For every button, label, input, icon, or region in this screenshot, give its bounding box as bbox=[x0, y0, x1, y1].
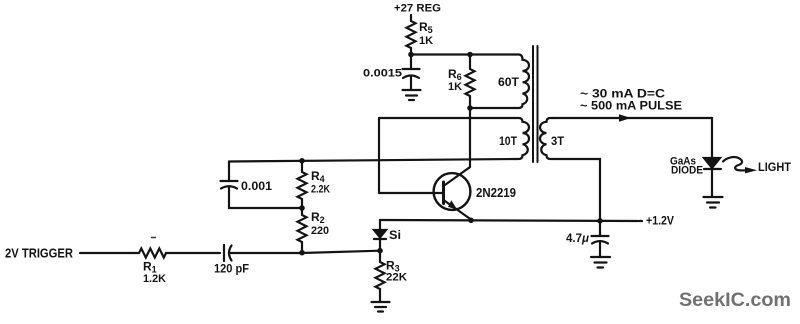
capacitor 0.001 bbox=[221, 162, 303, 209]
svg-text:LIGHT: LIGHT bbox=[758, 162, 791, 174]
capacitor 120 pF bbox=[224, 245, 380, 261]
ground (below R3) bbox=[372, 302, 390, 312]
node: R6 top junction bbox=[467, 52, 473, 58]
wire: 3T top to GaAs diode (with current arrow) bbox=[554, 117, 712, 119]
ground (below GaAs diode) bbox=[704, 197, 723, 208]
svg-text:1K: 1K bbox=[448, 81, 462, 93]
svg-text:Si: Si bbox=[389, 228, 401, 242]
svg-text:1K: 1K bbox=[419, 35, 433, 47]
ground (below 4.7u) bbox=[591, 257, 610, 268]
ground (below 0.0015) bbox=[403, 90, 421, 100]
capacitor 4.7u bbox=[592, 221, 609, 257]
svg-text:+1.2V: +1.2V bbox=[646, 214, 674, 228]
wire: base lead bbox=[379, 192, 443, 194]
transistor base bar bbox=[442, 182, 445, 204]
svg-text:0.001: 0.001 bbox=[241, 179, 272, 193]
wire: 10T top to base loop bbox=[379, 117, 515, 119]
resistor R5 bbox=[407, 15, 416, 55]
node: R2 bottom junction on trigger line bbox=[299, 250, 305, 256]
resistor R6 bbox=[466, 55, 475, 109]
wire: 3T bottom down to rail bbox=[554, 159, 600, 221]
wire: R4 top rail to 10T bottom bbox=[229, 159, 515, 162]
diode GaAs (LED) bbox=[704, 158, 721, 197]
svg-text:2.2K: 2.2K bbox=[311, 184, 330, 196]
label R1 1.2K bbox=[143, 260, 166, 286]
node: R5 bottom junction bbox=[408, 52, 414, 58]
resistor R2 bbox=[298, 208, 307, 253]
transformer winding 3T bbox=[540, 118, 554, 159]
svg-text:DIODE: DIODE bbox=[671, 165, 703, 177]
capacitor 0.0015 bbox=[403, 55, 420, 91]
svg-text:1.2K: 1.2K bbox=[143, 273, 166, 285]
arrow on output wire bbox=[619, 114, 631, 121]
resistor R3 bbox=[376, 251, 385, 302]
label R5 1K bbox=[419, 20, 433, 47]
svg-text:3T: 3T bbox=[551, 134, 565, 148]
svg-text:2N2219: 2N2219 bbox=[476, 185, 516, 200]
resistor R1 bbox=[136, 249, 220, 258]
svg-text:2V TRIGGER: 2V TRIGGER bbox=[5, 246, 74, 261]
svg-text:22K: 22K bbox=[386, 272, 407, 284]
svg-text:0.0015: 0.0015 bbox=[363, 68, 402, 80]
svg-text:~ 500 mA PULSE: ~ 500 mA PULSE bbox=[580, 99, 682, 113]
light emission arrow bbox=[723, 157, 757, 173]
stray mark above R1 (scan artifact) bbox=[152, 237, 156, 239]
resistor R4 bbox=[298, 161, 307, 208]
wire: trigger input bbox=[80, 252, 136, 254]
wire: base loop vertical bbox=[378, 118, 380, 193]
transformer winding 60T bbox=[515, 55, 529, 109]
label R3 22K bbox=[386, 259, 407, 284]
diode Si bbox=[374, 220, 386, 251]
label R2 220 bbox=[311, 210, 329, 237]
node: R4 top junction bbox=[299, 158, 305, 164]
transformer core bbox=[533, 46, 538, 162]
wire: 60T bottom to R6 bottom bbox=[470, 107, 515, 109]
svg-text:SeekIC.com: SeekIC.com bbox=[679, 290, 791, 311]
svg-text:120 pF: 120 pF bbox=[214, 262, 249, 276]
node: R4/R2/cap junction bbox=[299, 205, 305, 211]
svg-text:60T: 60T bbox=[498, 75, 520, 89]
label GaAs DIODE bbox=[670, 156, 703, 177]
node: Si/R3/trigger junction bbox=[377, 248, 383, 254]
wire: top rail from R5 junction to 60T bbox=[411, 53, 515, 55]
rail end dash bbox=[639, 220, 642, 222]
transistor Q1 2N2219 circle bbox=[434, 173, 471, 210]
transistor emitter lead with arrow bbox=[444, 200, 472, 220]
node: emitter junction on rail bbox=[468, 218, 474, 224]
node: 4.7u junction on rail bbox=[597, 218, 603, 224]
wire: emitter rail +1.2V bbox=[380, 220, 638, 221]
transistor collector lead bbox=[444, 108, 471, 186]
svg-text:220: 220 bbox=[311, 225, 329, 237]
node: R6 bottom junction bbox=[467, 105, 473, 111]
label R4 2.2K bbox=[311, 169, 330, 196]
wire: down to GaAs diode bbox=[711, 118, 713, 158]
svg-text:+27 REG: +27 REG bbox=[394, 3, 441, 15]
svg-text:4.7μ: 4.7μ bbox=[566, 231, 590, 245]
transformer winding 10T bbox=[515, 118, 529, 159]
label R6 1K bbox=[448, 67, 462, 93]
svg-text:10T: 10T bbox=[499, 134, 518, 148]
